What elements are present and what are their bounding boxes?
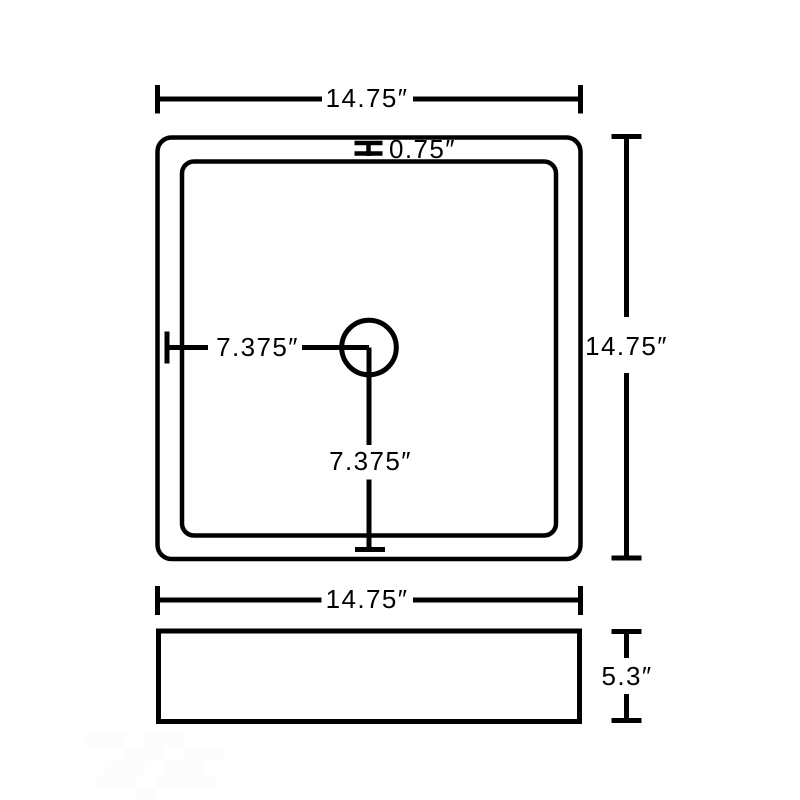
svg-text:5.3″: 5.3″ (602, 661, 653, 691)
svg-text:7.375″: 7.375″ (329, 446, 412, 476)
svg-text:7.375″: 7.375″ (216, 332, 299, 362)
svg-text:0.75″: 0.75″ (389, 134, 456, 164)
svg-text:14.75″: 14.75″ (585, 331, 668, 361)
svg-text:14.75″: 14.75″ (326, 83, 409, 113)
svg-text:14.75″: 14.75″ (326, 584, 409, 614)
